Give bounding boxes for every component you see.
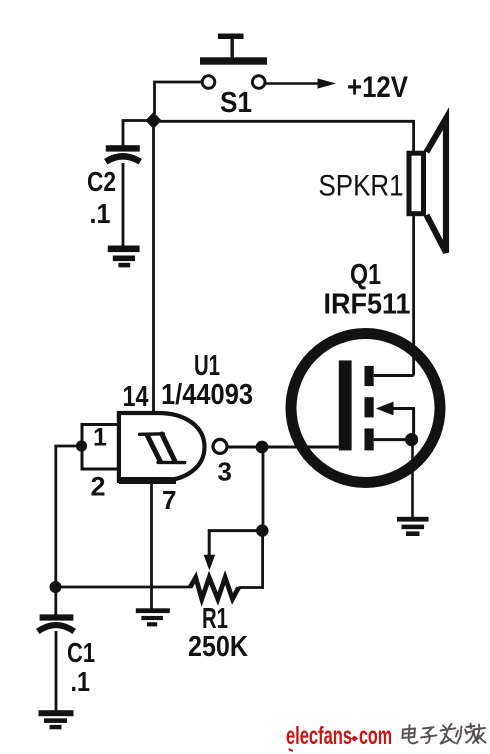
Q1 drain channel bar	[365, 366, 374, 386]
watermark char 友	[473, 725, 486, 744]
wire U1 pin 7 to ground	[150, 483, 153, 610]
U1 gate bottom edge	[119, 477, 176, 484]
wire R1 wiper	[209, 531, 262, 557]
Q1 gate bar	[339, 360, 352, 450]
wire node A to C2	[123, 121, 147, 147]
svg-text:C2: C2	[87, 166, 116, 197]
Q1 drain lead	[374, 374, 414, 377]
Q1 source lead	[374, 438, 412, 441]
svg-text:S1: S1	[220, 87, 252, 119]
svg-text:14: 14	[123, 381, 149, 413]
wire input node down left side	[56, 446, 82, 583]
speaker SPKR1	[409, 119, 446, 253]
wire output node down to R1 node	[262, 450, 265, 531]
ground (pin 7)	[136, 608, 170, 626]
svg-text:3: 3	[218, 457, 232, 487]
wire node to C1	[54, 590, 57, 616]
R1 wiper arrowhead	[204, 555, 216, 571]
junction bottom left node	[50, 581, 62, 593]
ground (C1)	[39, 710, 74, 729]
svg-text:IRF511: IRF511	[324, 289, 411, 321]
svg-text:1/44093: 1/44093	[161, 379, 253, 411]
U1 input bracket pins 1,2	[82, 423, 117, 471]
U1 output bubble	[213, 439, 227, 453]
svg-text:+12V: +12V	[347, 71, 408, 104]
S1 left terminal	[202, 76, 215, 89]
capacitor C1	[38, 614, 74, 711]
pushbutton S1 actuator bar	[200, 57, 267, 64]
op-amp U1 NAND gate body	[119, 413, 205, 481]
svg-text:.1: .1	[71, 666, 91, 697]
wire node A to SPKR1	[160, 121, 414, 152]
svg-text:2: 2	[91, 472, 106, 502]
svg-text:Q1: Q1	[350, 259, 381, 291]
wire R1 node to R1 right lead	[239, 534, 263, 588]
wire bottom rail	[58, 586, 191, 589]
Q1 source channel bar	[365, 428, 374, 450]
wire S1 left terminal to node A	[155, 82, 203, 114]
svg-text:.1: .1	[90, 198, 111, 229]
pushbutton S1 cap	[218, 34, 244, 59]
S1 right terminal	[252, 76, 265, 89]
U1 hysteresis symbol	[140, 434, 185, 463]
watermark elecfans.com logo	[286, 722, 392, 751]
junction R1 top node	[256, 524, 268, 536]
resistor R1 zigzag	[190, 578, 239, 600]
svg-text:elecfans: elecfans	[286, 722, 352, 750]
wire arrow to +12V	[265, 82, 320, 85]
transistor Q1 body circle	[291, 334, 440, 483]
wire U1 output to Q1 gate	[227, 446, 339, 449]
svg-text:7: 7	[162, 485, 176, 515]
ground (Q1)	[397, 517, 429, 536]
node A junction (diamond)	[146, 112, 162, 129]
wire Q1 source to ground	[411, 443, 414, 518]
junction output node	[256, 441, 269, 454]
junction source node	[405, 433, 418, 446]
capacitor C2	[106, 145, 140, 246]
Q1 body channel bar	[365, 397, 374, 417]
Q1 body arrow lead	[376, 402, 414, 438]
svg-text:SPKR1: SPKR1	[319, 170, 404, 203]
ground (C2)	[108, 246, 140, 268]
svg-text:com: com	[359, 722, 392, 750]
svg-text:1: 1	[93, 424, 107, 452]
svg-text:C1: C1	[67, 637, 95, 668]
watermark chinese characters 电子发烧友	[403, 724, 479, 744]
svg-text:U1: U1	[194, 350, 220, 382]
wire SPKR1 to Q1 drain	[412, 214, 415, 376]
wire node A to U1 pin 14	[152, 126, 155, 413]
svg-text:250K: 250K	[188, 631, 248, 663]
junction input node	[76, 440, 87, 451]
